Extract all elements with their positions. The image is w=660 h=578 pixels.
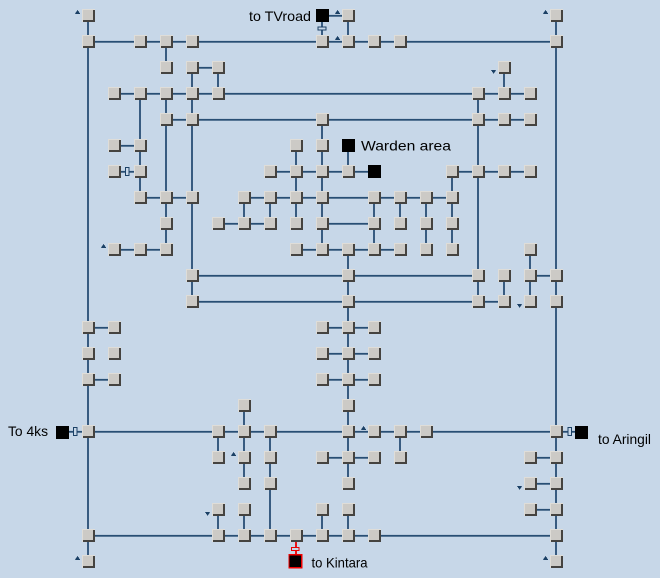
room (3,9) — [160, 243, 173, 256]
room (17,4) — [524, 113, 537, 126]
room (2,6) — [134, 165, 147, 178]
room (1,5) — [108, 139, 121, 152]
room (14,6) — [446, 165, 459, 178]
wire row1 c9-c10 — [329, 41, 342, 43]
wire col14 r8-r9 — [451, 230, 453, 243]
wire row13 c9-c10 — [329, 353, 342, 355]
room (18,11) — [550, 295, 563, 308]
room (2,3) — [134, 87, 147, 100]
room (6,16) — [238, 425, 251, 438]
wire col10 r5-r6 — [347, 152, 349, 165]
wire col13 r7-r8 — [425, 204, 427, 217]
room (10,14) — [342, 373, 355, 386]
wire col11 r8-r9 — [373, 230, 375, 243]
room (1,6) — [108, 165, 121, 178]
wire col3 r4-r9 — [165, 126, 167, 243]
down exit marker at (17,11) — [517, 304, 522, 308]
wire row1 c2-c3 — [147, 41, 160, 43]
room (6,17) — [238, 451, 251, 464]
room (18,10) — [550, 269, 563, 282]
wire col13 r8-r9 — [425, 230, 427, 243]
up exit marker at (18,0) — [543, 10, 548, 14]
room (18,17) — [550, 451, 563, 464]
wire col5 r16-r17 — [217, 438, 219, 451]
room (2,1) — [134, 35, 147, 48]
room (17,3) — [524, 87, 537, 100]
room (17,9) — [524, 243, 537, 256]
room (12,8) — [394, 217, 407, 230]
room (10,19) — [342, 503, 355, 516]
room (8,8) — [290, 217, 303, 230]
room (15,10) — [472, 269, 485, 282]
wire col5 r2-r3 — [217, 74, 219, 87]
wire row8 c5-c6 — [225, 223, 238, 225]
room (11,1) — [368, 35, 381, 48]
room (11,7) — [368, 191, 381, 204]
room (12,9) — [394, 243, 407, 256]
room (0,21) — [82, 555, 95, 568]
room (4,7) — [186, 191, 199, 204]
room (10,12) — [342, 321, 355, 334]
wire row12 c0-c1 — [95, 327, 108, 329]
wire col6 r19-r20 — [243, 516, 245, 529]
wire row1 c12-c18 — [407, 41, 550, 43]
wire row7 c12-c13 — [407, 197, 420, 199]
wire col16 r10-r11 — [503, 282, 505, 295]
up exit marker at (0,21) — [75, 556, 80, 560]
room (13,16) — [420, 425, 433, 438]
wire col18 r0-r1 — [555, 22, 557, 35]
wire row6 c15-c16 — [485, 171, 498, 173]
wire col6 r15-r16 — [243, 412, 245, 425]
wire row6 c16-c17 — [511, 171, 524, 173]
wire col7 r16-r17 — [269, 438, 271, 451]
room (9,20) — [316, 529, 329, 542]
down exit marker at (5,19) — [205, 512, 210, 516]
room (1,13) — [108, 347, 121, 360]
svg-text:Warden area: Warden area — [361, 138, 451, 154]
room (18,21) — [550, 555, 563, 568]
door on red wire to Kintara — [292, 548, 300, 551]
room (1,14) — [108, 373, 121, 386]
svg-text:to Kintara: to Kintara — [312, 555, 368, 571]
room (15,3) — [472, 87, 485, 100]
room (14,8) — [446, 217, 459, 230]
wire row0 c9-c10 — [329, 15, 342, 17]
wire col17 r10-r11 — [529, 282, 531, 295]
wire row16 c13-c18 — [433, 431, 550, 433]
wire col3 r3-r4 — [165, 100, 167, 113]
wire to Kintara exit (red) col8 — [295, 542, 297, 555]
room (9,0) black exit — [316, 9, 329, 22]
room (11,12) — [368, 321, 381, 334]
room (13,7) — [420, 191, 433, 204]
wire row14 c10-c11 — [355, 379, 368, 381]
room (4,3) — [186, 87, 199, 100]
room (7,6) — [264, 165, 277, 178]
room (8,6) — [290, 165, 303, 178]
wire row4 c9-c15 — [329, 119, 472, 121]
wire col9 r0-r1 — [321, 22, 323, 35]
wire row4 c3-c4 — [173, 119, 186, 121]
room (5,20) — [212, 529, 225, 542]
room (1,3) — [108, 87, 121, 100]
room (18,19) — [550, 503, 563, 516]
room (9,19) — [316, 503, 329, 516]
room (10,6) — [342, 165, 355, 178]
wire col12 r7-r8 — [399, 204, 401, 217]
wire col10 r0-r1 — [347, 22, 349, 35]
wire row3 c3-c4 — [173, 93, 186, 95]
room (0,20) — [82, 529, 95, 542]
room (11,6) black exit — [368, 165, 381, 178]
wire row3 c1-c2 — [121, 93, 134, 95]
wire row4 c4-c9 — [199, 119, 316, 121]
wire col5 r19-r20 — [217, 516, 219, 529]
wire row12 c9-c10 — [329, 327, 342, 329]
wire row16 c10-c11 — [355, 431, 368, 433]
wire row2 c4-c5 — [199, 67, 212, 69]
room (1,9) — [108, 243, 121, 256]
wire col2 r5-r6 — [139, 152, 141, 165]
wire row17 c17-c18 — [537, 457, 550, 459]
room (3,3) — [160, 87, 173, 100]
wire row17 c10-c11 — [355, 457, 368, 459]
wire col14 r7-r8 — [451, 204, 453, 217]
room (10,13) — [342, 347, 355, 360]
svg-text:to Aringil: to Aringil — [598, 431, 651, 447]
wire row16 c5-c6 — [225, 431, 238, 433]
room (9,7) — [316, 191, 329, 204]
wire row6 c9-c10 — [329, 171, 342, 173]
room (16,3) — [498, 87, 511, 100]
room (0,13) — [82, 347, 95, 360]
room (6,8) — [238, 217, 251, 230]
wire col0 r0-r1 — [87, 22, 89, 35]
down exit marker at (16,2) — [491, 70, 496, 74]
room (7,7) — [264, 191, 277, 204]
room (6,19) — [238, 503, 251, 516]
room (10,17) — [342, 451, 355, 464]
room (2,5) — [134, 139, 147, 152]
wire row16 c11-c12 — [381, 431, 394, 433]
room (5,2) — [212, 61, 225, 74]
wire col9 r8-r9 — [321, 230, 323, 243]
room (16,2) — [498, 61, 511, 74]
wire row6 c14-c15 — [459, 171, 472, 173]
room To 4ks black exit — [56, 426, 69, 439]
wire row7 c2-c3 — [147, 197, 160, 199]
wire col17 r9-r10 — [529, 256, 531, 269]
room (17,17) — [524, 451, 537, 464]
room (18,1) — [550, 35, 563, 48]
room (4,10) — [186, 269, 199, 282]
room (15,11) — [472, 295, 485, 308]
room (3,4) — [160, 113, 173, 126]
wire row16 c7-c10 — [277, 431, 342, 433]
up exit marker at (1,9) — [101, 244, 106, 248]
wire row9 c2-c3 — [147, 249, 160, 251]
wire row7 c9-c11 — [329, 197, 368, 199]
wire to Aringil exit row16 — [563, 431, 575, 433]
room (0,0) — [82, 9, 95, 22]
wire row3 c2-c3 — [147, 93, 160, 95]
wire row4 c16-c17 — [511, 119, 524, 121]
room (10,9) — [342, 243, 355, 256]
wire col7 r18-r20 — [269, 490, 271, 529]
room (6,20) — [238, 529, 251, 542]
wire row9 c8-c9 — [303, 249, 316, 251]
wire row20 c6-c7 — [251, 535, 264, 537]
room (16,11) — [498, 295, 511, 308]
wire col18 r1-r21 — [555, 48, 557, 555]
wire row20 c10-c11 — [355, 535, 368, 537]
wire row16 c12-c13 — [407, 431, 420, 433]
room (2,9) — [134, 243, 147, 256]
room (9,8) — [316, 217, 329, 230]
room (6,7) — [238, 191, 251, 204]
wire row7 c7-c8 — [277, 197, 290, 199]
room (9,13) — [316, 347, 329, 360]
room (10,0) — [342, 9, 355, 22]
room (11,13) — [368, 347, 381, 360]
wire row20 c9-c10 — [329, 535, 342, 537]
wire col4 r2-r11 — [191, 74, 193, 295]
room (13,8) — [420, 217, 433, 230]
wire row8 c9-c11 — [329, 223, 368, 225]
wire row10 c4-c10 — [199, 275, 342, 277]
wire row6 c8-c9 — [303, 171, 316, 173]
room (11,17) — [368, 451, 381, 464]
wire col7 r17-r18 — [269, 464, 271, 477]
room (8,9) — [290, 243, 303, 256]
up exit marker at (11,16) — [361, 426, 366, 430]
room (11,9) — [368, 243, 381, 256]
room (9,1) — [316, 35, 329, 48]
room (0,16) — [82, 425, 95, 438]
room (11,8) — [368, 217, 381, 230]
wire row1 c11-c12 — [381, 41, 394, 43]
room (2,7) — [134, 191, 147, 204]
wire col6 r16-r17 — [243, 438, 245, 451]
wire row13 c10-c11 — [355, 353, 368, 355]
wire row20 c8-c9 — [303, 535, 316, 537]
room (10,10) — [342, 269, 355, 282]
room (13,9) — [420, 243, 433, 256]
door on wire To 4ks — [74, 428, 78, 436]
door on wire (9,0)-(9,1) — [318, 27, 326, 30]
wire col6 r17-r18 — [243, 464, 245, 477]
wire row18 c17-c18 — [537, 483, 550, 485]
room (11,14) — [368, 373, 381, 386]
wire col14 r6-r7 — [451, 178, 453, 191]
room (17,10) — [524, 269, 537, 282]
wire row7 c11-c12 — [381, 197, 394, 199]
room (5,3) — [212, 87, 225, 100]
room (6,18) — [238, 477, 251, 490]
wire row7 c3-c4 — [173, 197, 186, 199]
svg-text:To 4ks: To 4ks — [8, 423, 48, 439]
room (9,4) — [316, 113, 329, 126]
room (7,18) — [264, 477, 277, 490]
room (17,19) — [524, 503, 537, 516]
wire row9 c11-c12 — [381, 249, 394, 251]
room (9,14) — [316, 373, 329, 386]
room (11,20) — [368, 529, 381, 542]
room (11,16) — [368, 425, 381, 438]
room (4,2) — [186, 61, 199, 74]
wire col9 r6-r7 — [321, 178, 323, 191]
wire col9 r4-r5 — [321, 126, 323, 139]
wire col12 r16-r17 — [399, 438, 401, 451]
room (10,18) — [342, 477, 355, 490]
wire row1 c3-c4 — [173, 41, 186, 43]
wire row1 c0-c2 — [95, 41, 134, 43]
wire row7 c13-c14 — [433, 197, 446, 199]
room (10,5) black exit — [342, 139, 355, 152]
wire To 4ks exit row16 — [69, 431, 82, 433]
room (9,17) — [316, 451, 329, 464]
room (0,1) — [82, 35, 95, 48]
room (4,4) — [186, 113, 199, 126]
room (10,16) — [342, 425, 355, 438]
door on wire (1,6)-(2,6) — [126, 168, 130, 176]
wire row16 c0-c5 — [95, 431, 212, 433]
wire row17 c9-c10 — [329, 457, 342, 459]
wire row8 c6-c7 — [251, 223, 264, 225]
room (17,11) — [524, 295, 537, 308]
wire col8 r6-r7 — [295, 178, 297, 191]
room (5,8) — [212, 217, 225, 230]
room (16,4) — [498, 113, 511, 126]
wire row5 c1-c2 — [121, 145, 134, 147]
wire row20 c0-c5 — [95, 535, 212, 537]
wire col11 r7-r8 — [373, 204, 375, 217]
wire row11 c4-c10 — [199, 301, 342, 303]
room (17,18) — [524, 477, 537, 490]
wire col16 r2-r3 — [503, 74, 505, 87]
wire col2 r3-r5 — [139, 100, 141, 139]
wire row7 c8-c9 — [303, 197, 316, 199]
room (10,20) — [342, 529, 355, 542]
wire row9 c1-c2 — [121, 249, 134, 251]
wire row9 c10-c11 — [355, 249, 368, 251]
room (7,17) — [264, 451, 277, 464]
wire row7 c6-c7 — [251, 197, 264, 199]
room (4,11) — [186, 295, 199, 308]
room (7,16) — [264, 425, 277, 438]
wire row3 c4-c5 — [199, 93, 212, 95]
wire col3 r1-r2 — [165, 48, 167, 61]
room (10,11) — [342, 295, 355, 308]
room (18,0) — [550, 9, 563, 22]
room to Kintara black exit red border — [289, 555, 302, 568]
room (8,5) — [290, 139, 303, 152]
wire row3 c16-c17 — [511, 93, 524, 95]
room (18,20) — [550, 529, 563, 542]
wire row3 c15-c16 — [485, 93, 498, 95]
wire row20 c11-c18 — [381, 535, 550, 537]
wire row14 c9-c10 — [329, 379, 342, 381]
wire row6 c1-c2 — [121, 171, 134, 173]
wire row16 c6-c7 — [251, 431, 264, 433]
room (15,6) — [472, 165, 485, 178]
wire col8 r7-r8 — [295, 204, 297, 217]
wire row10 c10-c15 — [355, 275, 472, 277]
room (0,14) — [82, 373, 95, 386]
wire col15 r3-r11 — [477, 100, 479, 295]
up exit marker at (10,0) — [335, 10, 340, 14]
wire row10 c17-c18 — [537, 275, 550, 277]
wire row6 c10-c11 — [355, 171, 368, 173]
room (18,16) — [550, 425, 563, 438]
room (5,16) — [212, 425, 225, 438]
room (4,1) — [186, 35, 199, 48]
wire row1 c10-c11 — [355, 41, 368, 43]
room to Aringil black exit — [575, 426, 588, 439]
room (10,15) — [342, 399, 355, 412]
room (0,12) — [82, 321, 95, 334]
room (1,12) — [108, 321, 121, 334]
room (9,6) — [316, 165, 329, 178]
wire col7 r7-r8 — [269, 204, 271, 217]
room (3,1) — [160, 35, 173, 48]
wire row11 c10-c15 — [355, 301, 472, 303]
room (6,15) — [238, 399, 251, 412]
down exit marker at (17,18) — [517, 486, 522, 490]
room (14,9) — [446, 243, 459, 256]
room (8,20) — [290, 529, 303, 542]
wire row1 c4-c9 — [199, 41, 316, 43]
room (3,7) — [160, 191, 173, 204]
room (5,19) — [212, 503, 225, 516]
room (15,4) — [472, 113, 485, 126]
wire row20 c7-c8 — [277, 535, 290, 537]
wire col9 r5-r6 — [321, 152, 323, 165]
wire row19 c17-c18 — [537, 509, 550, 511]
room (12,7) — [394, 191, 407, 204]
wire col0 r1-r21 — [87, 48, 89, 555]
room (3,8) — [160, 217, 173, 230]
up exit marker at (0,0) — [75, 10, 80, 14]
wire col10 r9-r18 — [347, 256, 349, 477]
wire row3 c5-c15 — [225, 93, 472, 95]
room (10,1) — [342, 35, 355, 48]
svg-text:to TVroad: to TVroad — [249, 8, 311, 24]
room (9,9) — [316, 243, 329, 256]
wire row20 c5-c6 — [225, 535, 238, 537]
wire row6 c7-c8 — [277, 171, 290, 173]
wire col9 r7-r8 — [321, 204, 323, 217]
room (18,18) — [550, 477, 563, 490]
up exit marker at (6,17) — [231, 452, 236, 456]
room (7,8) — [264, 217, 277, 230]
room (16,6) — [498, 165, 511, 178]
wire row9 c9-c10 — [329, 249, 342, 251]
wire row11 c15-c16 — [485, 301, 498, 303]
wire col6 r7-r8 — [243, 204, 245, 217]
wire col9 r19-r20 — [321, 516, 323, 529]
room (12,16) — [394, 425, 407, 438]
room (12,17) — [394, 451, 407, 464]
room (17,6) — [524, 165, 537, 178]
door on wire to Aringil — [568, 428, 572, 436]
room (8,7) — [290, 191, 303, 204]
wire col2 r6-r7 — [139, 178, 141, 191]
room (9,12) — [316, 321, 329, 334]
up exit marker at (18,21) — [543, 556, 548, 560]
room (3,2) — [160, 61, 173, 74]
